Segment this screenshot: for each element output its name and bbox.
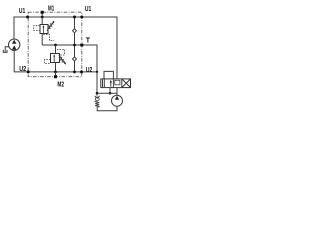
- valve DV position C cross X: [122, 79, 131, 88]
- boundary manifold dash-dot rectangle: [28, 12, 82, 77]
- wire valve2 riser: [55, 45, 57, 54]
- valve DV divider B-C: [121, 79, 123, 88]
- wire pump P1 drain: [5, 47, 9, 52]
- node check valve top dot: [96, 92, 99, 95]
- wire gauge line x74.5: [74, 17, 76, 29]
- wire valve DV bottom port B stub: [109, 88, 111, 94]
- wire tank header y93.2: [97, 92, 117, 94]
- valve V1 adjust arrow diagonal: [47, 22, 54, 31]
- svg-text:U2: U2: [86, 67, 92, 74]
- node tee pipe-y72 to x97 dot: [96, 71, 98, 73]
- pump P1 flow triangles: [12, 40, 16, 50]
- wire tank drop x97: [96, 72, 98, 93]
- check valve CV seat wire: [96, 93, 98, 95]
- valve V1 outlet wire: [41, 34, 43, 46]
- valve V2 adjust arrow diagonal: [59, 55, 66, 64]
- valve DV divider A-B: [112, 79, 114, 88]
- svg-text:U1: U1: [85, 6, 91, 13]
- svg-text:U1: U1: [19, 8, 25, 15]
- wire M1 stub: [41, 14, 43, 17]
- valve V2 spring zigzag: [59, 57, 65, 62]
- node gauge bottom dot: [73, 71, 76, 74]
- svg-text:U2: U2: [19, 66, 26, 73]
- valve DV position B small box: [115, 80, 120, 85]
- wire mid pipe y45: [42, 45, 97, 72]
- valve V1 internal arrow: [42, 27, 44, 33]
- pump P2 circle: [112, 95, 123, 106]
- node gauge top dot: [73, 16, 76, 19]
- node DV port B dot: [109, 92, 112, 95]
- node U1 left junction dot: [26, 16, 29, 19]
- svg-text:T: T: [86, 37, 91, 44]
- valve DV outer body: [101, 79, 131, 88]
- valve V2 internal arrow: [53, 56, 55, 62]
- valve V1 spring zigzag: [47, 24, 53, 29]
- svg-text:M2: M2: [57, 81, 64, 88]
- check valve CV seat V: [95, 96, 100, 98]
- valve DV divider solenoid: [103, 79, 105, 88]
- valve V1 body square: [40, 25, 48, 34]
- wire pump P1 outlet down leg to U2 line: [14, 50, 97, 72]
- wire valve1 riser: [41, 17, 43, 25]
- node valve2 inlet dot: [54, 44, 57, 47]
- node U1 right junction dot: [80, 16, 83, 19]
- valve DV position A arrow: [110, 81, 112, 86]
- wire valve DV top bridge: [104, 71, 113, 79]
- pump P1 circle: [9, 39, 20, 50]
- node M2 dot: [54, 71, 57, 74]
- valve V1 pilot dashed Z bottom: [43, 35, 54, 41]
- node gauge mid dot: [73, 44, 76, 47]
- port M2 square: [54, 75, 57, 78]
- tank symbol drain: [3, 50, 7, 53]
- valve V2 body square: [51, 54, 60, 63]
- node U2 right junction dot: [80, 70, 83, 73]
- check valve CV ball: [95, 97, 99, 101]
- node valve1 inlet dot: [41, 16, 44, 19]
- valve DV solenoid inner stroke: [102, 80, 104, 88]
- port T square: [80, 44, 83, 47]
- wire M2 stub: [55, 72, 57, 75]
- valve V2 outlet wire: [55, 63, 57, 72]
- node U2 left junction dot: [27, 70, 30, 73]
- orifice diamond lower: [73, 57, 77, 61]
- svg-text:M1: M1: [48, 6, 54, 13]
- port M1 square: [41, 11, 44, 14]
- pump P2 triangle: [115, 96, 119, 100]
- valve V2 pilot dashed C left: [45, 59, 51, 63]
- wire pump2 discharge to valve: [116, 88, 118, 96]
- check valve CV spring: [95, 101, 99, 107]
- wire P main top pipe U1-U1: [14, 17, 117, 79]
- valve V1 pilot dashed C left: [34, 26, 40, 31]
- orifice diamond upper: [73, 29, 77, 33]
- wire check valve to suction: [97, 106, 117, 111]
- valve V2 pilot dashed Z top: [57, 49, 65, 55]
